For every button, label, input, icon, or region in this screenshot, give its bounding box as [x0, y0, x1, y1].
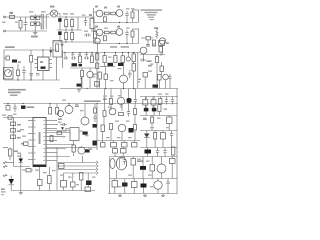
wire filter mid rail [57, 29, 82, 31]
label smudge AC input [2, 22, 6, 23]
label smudge near C6 T2 [82, 15, 86, 16]
capacitor C2 polarized mark [58, 18, 61, 22]
transistor Q1 [95, 38, 101, 44]
resistor R5 horizontal [105, 12, 110, 15]
capacitor C25 [11, 135, 16, 139]
resistor R67 [98, 72, 101, 79]
bridge diode D4 [36, 22, 40, 25]
wire bottom rail channel B [94, 43, 139, 45]
resistor R48 [72, 145, 75, 152]
capacitor C34 [38, 180, 43, 186]
bridge diode D2 [36, 16, 40, 19]
capacitor C1 (X cap) [25, 17, 27, 23]
capacitor C44 ellipse [110, 159, 115, 169]
label smudges reg area [108, 57, 112, 58]
label smudges bottom-left [17, 153, 21, 154]
label smudge above T1 [29, 11, 34, 12]
wire left y147 [3, 147, 8, 149]
wire right bus x137.8 [137, 53, 139, 89]
resistor R70 vertical [158, 105, 161, 112]
wire row y178-193 links [114, 179, 116, 181]
diode D20 [19, 159, 24, 163]
transistor Q8 [140, 47, 147, 54]
diode D8 box [160, 66, 163, 72]
resistor R66 [132, 64, 135, 72]
relay contact box K2b [151, 100, 156, 106]
wire top rail mid-left [4, 49, 57, 51]
label [103, 98, 107, 100]
wire osc to q8 [162, 44, 164, 54]
box right of IC bottom [59, 164, 65, 169]
resistor R37 [101, 125, 104, 132]
label above bus [84, 100, 101, 102]
node dots on bus [7, 103, 8, 104]
shield box outline [53, 41, 62, 58]
capacitor C41 blob [108, 63, 114, 66]
wire q7 column [80, 77, 82, 89]
capacitor C8 [126, 11, 128, 14]
wire ribbon y166 [57, 165, 96, 167]
label mid-right values [147, 60, 152, 62]
inductor L2 box [159, 41, 165, 46]
label L2 [166, 42, 169, 44]
label smudges IC left col [2, 115, 6, 116]
capacitor C22 blob [93, 124, 98, 128]
resistor R14 [30, 56, 33, 63]
ground below T1 [34, 30, 36, 32]
resistor R23 [156, 57, 159, 63]
resistor R55 [150, 165, 155, 172]
resistor R38 [110, 124, 113, 130]
wire ribbon y162 [57, 162, 96, 164]
bridge rectifier BR1 circle [50, 10, 57, 17]
wire rail y147 right [140, 147, 177, 149]
transistor Q12 [117, 97, 124, 104]
ground bottom left [20, 191, 22, 193]
wire ribbon y173 [64, 172, 97, 174]
text notes small left [138, 79, 142, 80]
U1 pin stubs left [35, 59, 38, 61]
capacitor C33 [171, 131, 173, 134]
resistor R33 [103, 111, 106, 117]
label osc [154, 27, 158, 29]
wire shield to rail [56, 57, 58, 80]
wire bottom rail channel A [94, 22, 139, 24]
notes text block line2 [8, 92, 21, 94]
capacitor C16 blob [77, 84, 82, 87]
capacitor C13 [36, 73, 40, 75]
fuse F1 value label [10, 12, 14, 14]
wire bottom-center links [63, 173, 65, 181]
U1 internal mark [41, 67, 46, 69]
capacitor C6 [85, 17, 87, 21]
wire y156 right [110, 156, 177, 158]
wire U1 top to rail [42, 50, 44, 57]
capacitor C4 polarized mark [58, 31, 61, 35]
resistor R47 [48, 176, 52, 184]
resistor R34 [119, 113, 124, 116]
resistor R57 [132, 182, 138, 188]
label near R70 [164, 108, 168, 109]
diode D5 [50, 47, 52, 50]
ground below filter rail [61, 42, 63, 44]
wire bridge center [34, 14, 36, 30]
capacitor C12 [30, 73, 34, 75]
node dots filter [65, 16, 66, 17]
label bottom left [1, 188, 5, 190]
wire y147 center [46, 147, 97, 149]
wire links y130-147 [146, 131, 148, 134]
capacitor C38 [124, 157, 126, 160]
small box pair [85, 187, 91, 192]
wire q8 row [140, 54, 165, 56]
label R5 [104, 7, 107, 9]
transistor Q6 [159, 38, 165, 44]
diode D14 blob dark [152, 108, 157, 112]
input arrow 1 [3, 161, 7, 163]
resistor R54 [172, 147, 175, 155]
wire U1 bottom to rail [42, 71, 44, 81]
wire left bus channel A [93, 8, 95, 23]
resistor R50 [61, 181, 67, 188]
label under transformer [31, 36, 38, 38]
capacitor C24 [11, 129, 16, 133]
resistor R42 [111, 143, 117, 148]
wire from T1 to BR1 [46, 14, 50, 16]
wire center col drops y103-147 [103, 117, 105, 126]
capacitor C29 [135, 97, 137, 100]
capacitor C13b horizontal [64, 57, 66, 59]
resistor R11 [131, 31, 134, 37]
IC U2 body [33, 118, 46, 167]
wire neutral rail [5, 30, 47, 32]
resistor R45 [9, 149, 12, 156]
resistor R4 [94, 32, 97, 39]
capacitor C21 [94, 113, 96, 117]
label Q4 [95, 26, 98, 28]
component inside shield [56, 44, 59, 52]
resistor R26 [56, 108, 59, 115]
wire output stub B [133, 28, 140, 30]
node bridge junction dots [35, 17, 36, 18]
output arrow 4 [96, 172, 98, 175]
capacitor C18 [169, 74, 171, 77]
resistor R29 [50, 136, 53, 142]
resistor R10 horizontal [111, 31, 116, 34]
capacitor C36 [157, 148, 159, 151]
fuse F1 [10, 15, 15, 18]
resistor R12 [104, 36, 107, 41]
resistor R25 [49, 108, 52, 115]
wire main bus y103 [3, 103, 178, 105]
wire col x111 upper [110, 89, 112, 97]
wire mid links y115-130 [151, 116, 153, 118]
diode D6 blob [72, 63, 78, 66]
U2 right pin stubs [46, 120, 57, 122]
title note line 2 [145, 12, 158, 13]
wire rail y96 right [140, 96, 178, 98]
node dots channel B [119, 43, 120, 44]
resistor R32 [159, 99, 162, 105]
resistor R15 [79, 56, 82, 63]
crystal X1 [24, 142, 29, 145]
notes text block line3 [10, 95, 18, 96]
wire left edge output block [109, 157, 111, 194]
U1 pin stubs right [49, 59, 52, 61]
resistor R41 [101, 143, 106, 148]
transistor Q18 [154, 181, 162, 189]
resistor R64 [121, 56, 124, 63]
label q10 [75, 105, 79, 107]
wire Q15 links [73, 141, 75, 145]
wire vertical bus x97 [96, 104, 98, 151]
meter M1 frame [4, 68, 14, 80]
label smudges mid right area [148, 71, 152, 72]
wire rail y115 right [140, 115, 177, 117]
resistor R56 [112, 181, 118, 188]
transistor Q3 [116, 10, 123, 17]
label smudges bottom center [60, 175, 64, 176]
title note line 1 [141, 9, 163, 11]
wire q1 drop x97 [97, 44, 99, 53]
relay K1 body [12, 60, 17, 63]
capacitor C9 [126, 30, 128, 33]
label U1 [40, 61, 43, 63]
diode D7 blob [79, 64, 83, 67]
U2 left pin stubs [28, 120, 33, 122]
label smudges channel B parts [104, 28, 108, 29]
wire center y130 [46, 130, 70, 132]
resistor R46 [26, 169, 31, 172]
resistor R21 [159, 47, 163, 53]
label [143, 118, 147, 120]
box lower right of Q7 [95, 82, 100, 86]
resistor R65 [132, 54, 135, 62]
label r group [58, 118, 62, 120]
U2 inner pin numbers left [34, 120, 36, 121]
wire col x128 [128, 89, 130, 99]
label Q5 [117, 26, 120, 28]
U2 inner pin numbers right [43, 120, 45, 121]
label U2 vertical [39, 132, 41, 144]
node dots on rail y52 [64, 52, 65, 53]
bridge diode D1 [31, 16, 35, 19]
label near q7 [92, 74, 97, 75]
label T2 [89, 14, 92, 16]
wire filter bottom rail [53, 41, 100, 43]
ground bottom right 3 [162, 194, 164, 196]
op-amp U1 body [38, 57, 50, 71]
resistor R31 [110, 99, 113, 105]
label Q3 [117, 6, 120, 8]
label smudge filter row [63, 13, 68, 14]
diode D12 blob [127, 98, 132, 103]
wire y178 right [110, 178, 177, 180]
label smudges bottom right [119, 158, 123, 159]
resistor R43 [122, 143, 128, 148]
transformer T2 [90, 19, 94, 29]
output arrow 1 [96, 161, 98, 164]
wire rail y117 left [3, 117, 33, 119]
capacitor C45 blob under Q11 [83, 132, 88, 135]
capacitor C10 [146, 44, 150, 46]
resistor R28 [57, 132, 62, 135]
wire left col vertical [13, 118, 15, 151]
diode D17 blob [129, 128, 134, 133]
diode D22 blob [145, 150, 152, 154]
notes text block line1 [8, 89, 26, 91]
ground center [78, 89, 80, 90]
wire col x146 x153 drops [145, 97, 147, 101]
bridge diode D3 [31, 22, 35, 25]
diode D18 [144, 134, 150, 138]
transistor Q10 [65, 106, 73, 114]
resistor R62 [103, 56, 106, 63]
transistor Q19 above IC right [58, 111, 64, 117]
wire diode row to rail y115 [145, 111, 147, 115]
wire partial y66 [100, 66, 115, 68]
node AC-L terminal [4, 16, 6, 18]
transistor Q14 [118, 124, 126, 132]
capacitor C20 [14, 104, 16, 108]
power transistor Q16 [116, 157, 126, 170]
capacitor C14 horizontal [71, 57, 73, 59]
resistor R53 [121, 149, 127, 154]
capacitor C42 blob [118, 63, 124, 66]
inductor L1 [146, 37, 151, 40]
wire center rail y68 [70, 67, 95, 69]
transistor Q15 [78, 147, 85, 154]
wire col x121 [120, 89, 122, 98]
ground bottom right 1 [119, 194, 121, 196]
wire T1 top link [40, 15, 42, 18]
ground bottom right 2 [144, 194, 146, 196]
title note line 5 [150, 19, 154, 20]
wire mid-right links y54-88 [143, 54, 145, 60]
resistor R44 [132, 143, 138, 148]
label [137, 160, 143, 162]
resistor R8 [104, 17, 107, 22]
wire osc vertical [147, 40, 149, 47]
wire right bus x157 [156, 63, 158, 89]
resistor R49 [80, 173, 83, 181]
label K1 [18, 61, 21, 63]
wire bottom rail mid-left [4, 79, 60, 81]
resistor R68 [104, 74, 107, 80]
resistor R16 [91, 56, 94, 63]
transistor Q11 [81, 117, 89, 125]
wire T1 bottom link [40, 24, 42, 29]
diode D23 box [131, 159, 136, 166]
wire bottom row links y140-147 [102, 141, 104, 143]
label smudge snubber [84, 31, 88, 32]
resistor R13 [17, 70, 20, 76]
wire row y156-178 links [116, 170, 118, 179]
wire stub x78 [77, 17, 79, 30]
label smudge reg row [110, 46, 117, 48]
resistor R20 zigzag [156, 30, 158, 39]
wire rail y140 center-right [97, 140, 140, 142]
resistor R27 [94, 108, 97, 113]
wire center rail y52 [63, 52, 141, 54]
power transistor Q17 [157, 164, 166, 173]
drops from rail to parts [64, 53, 66, 57]
transistor Q2 [96, 10, 103, 17]
capacitor C17 horizontal [140, 59, 142, 61]
capacitor C19 blob [153, 85, 159, 88]
box D19 [161, 133, 166, 140]
switch S1 [6, 56, 9, 60]
resistor R9 horizontal [105, 31, 110, 34]
capacitor C37 [164, 148, 166, 151]
wire ribbon y169.5 [57, 169, 96, 171]
wire left bus vertical [3, 50, 5, 80]
resistor R22 [153, 40, 156, 46]
resistor R7 [131, 12, 134, 18]
wire IC stub bus x57 [56, 148, 58, 191]
transistor Q13 [109, 108, 116, 115]
wire vertical right edge [176, 89, 178, 195]
title note line 4 [148, 17, 154, 18]
wire rail y130 right [140, 130, 177, 132]
wire y190 center [60, 190, 95, 192]
diode D25 blob [141, 184, 147, 188]
capacitor C11 [23, 66, 25, 71]
wire y193 bottom right [108, 193, 177, 195]
label Q2 [95, 6, 98, 8]
diode D11 [61, 127, 64, 130]
label smudges q10 row [62, 100, 66, 101]
title note line 3 [147, 14, 156, 15]
diode D21 [9, 179, 15, 185]
resistor R51 [71, 182, 76, 187]
transistor Q20 [120, 75, 128, 83]
wire BR1 to filter top rail [58, 14, 60, 18]
label [14, 150, 18, 152]
resistor R60 on left bus [96, 54, 99, 61]
capacitor C43 [129, 70, 131, 73]
capacitor C7 horizontal [84, 34, 87, 36]
label smudges center row y56 [71, 54, 75, 55]
diode D13 blob dark [144, 108, 149, 112]
label [63, 130, 67, 132]
capacitor C23 [11, 122, 16, 126]
label [88, 148, 92, 150]
capacitor C32 [128, 109, 130, 112]
resistor R63 [114, 56, 117, 63]
transistor Q5 [116, 29, 123, 36]
diode D10 blob [21, 106, 26, 109]
resistor R40 [154, 133, 157, 140]
diode D24 blob [140, 166, 146, 170]
connector J2 [6, 106, 10, 111]
capacitor C39 blob [122, 183, 128, 187]
wire vertical x20 [20, 163, 22, 190]
wire output stub A [133, 9, 140, 11]
meter M1 movement [5, 70, 12, 77]
label BR1 [50, 6, 55, 8]
zener D26 small circle [126, 57, 130, 61]
transistor Q9 [163, 74, 169, 80]
wire filter top rail [57, 16, 95, 18]
capacitor C30 [166, 97, 168, 100]
wire col x104 [104, 89, 106, 104]
wire left column to IC bottom [13, 150, 15, 167]
label smudges right col [158, 94, 162, 95]
label smudges center y120-147 [58, 122, 62, 123]
resistor R61 on left bus [96, 63, 99, 69]
output arrow 3 [96, 168, 98, 171]
